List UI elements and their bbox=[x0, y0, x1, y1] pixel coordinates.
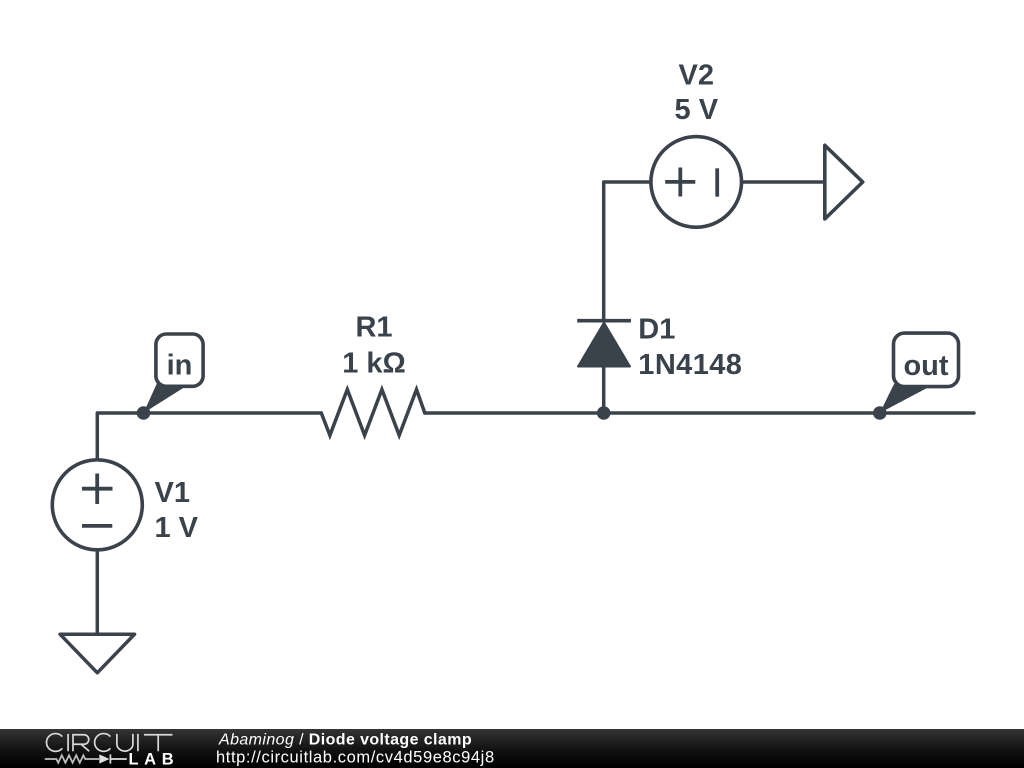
logo squiggle: resistor bbox=[45, 755, 99, 763]
svg-text:1 V: 1 V bbox=[155, 512, 199, 544]
flag box: in bbox=[156, 334, 203, 386]
svg-text:V2: V2 bbox=[679, 60, 714, 92]
svg-text:1N4148: 1N4148 bbox=[638, 349, 742, 381]
svg-text:R1: R1 bbox=[355, 312, 392, 344]
ground symbol bbox=[60, 634, 135, 673]
voltage source V1 circle bbox=[52, 460, 142, 550]
svg-text:Abaminog / Diode voltage clamp: Abaminog / Diode voltage clamp bbox=[218, 732, 472, 749]
wire: V1 bottom to ground bbox=[96, 550, 100, 634]
node dot: in node bbox=[137, 406, 151, 420]
wire: D1 cathode up to V2 level and across to V2 minus terminal bbox=[604, 182, 651, 321]
voltage source V2 circle bbox=[651, 137, 742, 228]
svg-text:D1: D1 bbox=[638, 314, 675, 346]
svg-text:out: out bbox=[903, 350, 948, 382]
V1 plus sign bbox=[82, 474, 113, 505]
svg-text:1 kΩ: 1 kΩ bbox=[342, 348, 406, 380]
svg-text:in: in bbox=[167, 350, 193, 382]
CircuitLab logo wordmark CIRCUIT (thin stroke letters) bbox=[47, 734, 173, 752]
V2 plus sign bbox=[665, 168, 695, 197]
node dot: out node bbox=[873, 406, 887, 420]
flag box: out bbox=[894, 333, 959, 387]
svg-text:V1: V1 bbox=[155, 477, 190, 509]
wire: V2 plus terminal to output port bbox=[742, 180, 825, 184]
output port triangle (open, pointing right) bbox=[825, 145, 863, 219]
diode D1 triangle (anode, pointing up) bbox=[578, 323, 630, 367]
wire: diode branch vertical (junction up to D1) bbox=[602, 330, 606, 413]
flag tail: in bbox=[144, 382, 185, 413]
resistor R1 zigzag body bbox=[321, 390, 425, 436]
svg-text:LAB: LAB bbox=[129, 751, 180, 768]
wire: main horizontal net, middle segment (R1 to out node) bbox=[425, 411, 974, 415]
logo squiggle: diode bar and lead bbox=[110, 754, 126, 763]
flag tail: out bbox=[880, 384, 927, 413]
wire: main horizontal net, left segment (in node to R1) bbox=[97, 413, 321, 459]
svg-text:5 V: 5 V bbox=[675, 94, 719, 126]
svg-text:http://circuitlab.com/cv4d59e8: http://circuitlab.com/cv4d59e8c94j8 bbox=[216, 749, 495, 767]
diode D1 cathode bar bbox=[577, 319, 631, 323]
V1 minus bar bbox=[82, 524, 112, 528]
V2 minus bar bbox=[715, 168, 719, 196]
footer bar bbox=[0, 729, 1024, 768]
node dot: diode junction bbox=[597, 406, 611, 420]
logo squiggle: diode bbox=[99, 754, 109, 763]
